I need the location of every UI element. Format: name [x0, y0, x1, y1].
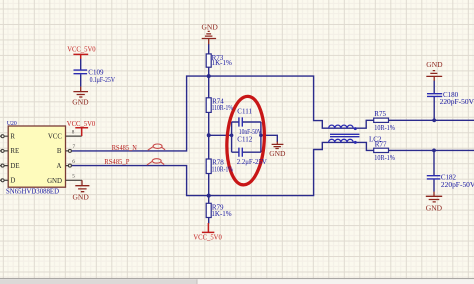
svg-text:10R-1%: 10R-1% — [374, 154, 395, 162]
svg-text:VCC_5V0: VCC_5V0 — [67, 120, 96, 128]
svg-text:GND: GND — [47, 178, 62, 185]
svg-text:C112: C112 — [237, 136, 252, 144]
svg-text:GND: GND — [202, 23, 219, 32]
svg-text:2.2μF-25V: 2.2μF-25V — [237, 158, 267, 166]
svg-text:VCC_5V0: VCC_5V0 — [67, 46, 96, 54]
svg-text:5: 5 — [72, 174, 75, 180]
svg-text:VCC: VCC — [48, 133, 63, 140]
svg-text:A: A — [57, 163, 62, 170]
svg-text:RS485_P: RS485_P — [104, 158, 129, 166]
svg-text:GND: GND — [73, 192, 90, 201]
svg-text:110R-1%: 110R-1% — [212, 165, 234, 173]
svg-text:GND: GND — [426, 203, 443, 212]
svg-text:C182: C182 — [441, 173, 457, 181]
svg-text:R77: R77 — [375, 141, 387, 149]
svg-text:8: 8 — [72, 130, 75, 136]
svg-text:GND: GND — [426, 60, 443, 69]
svg-text:RE: RE — [10, 148, 19, 155]
svg-text:RS485_N: RS485_N — [112, 144, 137, 152]
svg-text:220pF-50V: 220pF-50V — [440, 98, 474, 106]
svg-text:U20: U20 — [7, 120, 17, 127]
svg-text:R75: R75 — [374, 110, 386, 118]
svg-text:B: B — [57, 148, 62, 155]
svg-text:7: 7 — [73, 144, 76, 150]
svg-text:SN65HVD3088ED: SN65HVD3088ED — [6, 187, 59, 195]
svg-text:1K-1%: 1K-1% — [211, 210, 231, 218]
svg-text:VCC_5V0: VCC_5V0 — [193, 234, 222, 242]
svg-text:R: R — [10, 133, 15, 140]
svg-text:0.1μF-25V: 0.1μF-25V — [90, 76, 115, 84]
svg-text:220pF-50V: 220pF-50V — [441, 181, 474, 189]
svg-text:110R-1%: 110R-1% — [212, 104, 234, 112]
svg-text:DE: DE — [10, 163, 19, 170]
svg-text:D: D — [10, 178, 15, 185]
svg-text:6: 6 — [72, 159, 75, 165]
svg-text:1K-1%: 1K-1% — [212, 59, 232, 67]
svg-text:10R-1%: 10R-1% — [374, 124, 395, 132]
svg-text:GND: GND — [72, 97, 89, 106]
svg-text:C111: C111 — [237, 107, 252, 115]
svg-text:GND: GND — [269, 149, 286, 158]
